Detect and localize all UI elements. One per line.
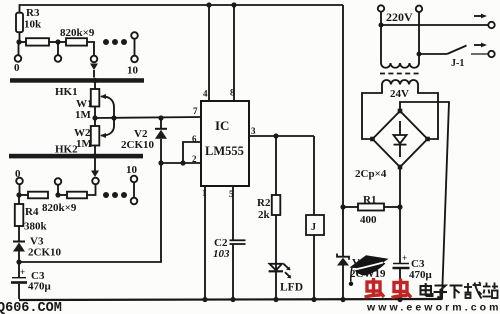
- watermark Q606.COM: [0, 301, 62, 314]
- arrow switch out: [474, 43, 487, 48]
- label LFD: [280, 282, 303, 294]
- svg-text:820k×9: 820k×9: [42, 202, 77, 214]
- pin 1 wire: [204, 186, 206, 299]
- pin 4 riser: [206, 2, 211, 101]
- dots ellipsis bottom: [103, 192, 127, 198]
- label 220V: [386, 10, 413, 24]
- node on HK1: [92, 78, 97, 83]
- svg-text:380k: 380k: [24, 221, 48, 233]
- svg-text:0: 0: [14, 62, 20, 74]
- label V2 2CK10: [121, 128, 155, 151]
- svg-text:R2: R2: [257, 197, 271, 209]
- bridge rectifier diamond 2Cp x4: [373, 111, 428, 167]
- label pin 5: [229, 189, 234, 199]
- resistor R3: [16, 13, 23, 42]
- label 820k x9 bottom: [42, 202, 77, 214]
- terminal 10 bottom pair: [131, 176, 138, 205]
- svg-text:7: 7: [193, 106, 198, 116]
- label HK1: [55, 86, 78, 98]
- terminal 220V right: [416, 6, 422, 12]
- wire V+ right vertical: [342, 5, 344, 207]
- svg-text:1M: 1M: [75, 109, 92, 121]
- capacitor C2: [230, 240, 246, 299]
- op-amp IC LM555 box: [201, 101, 249, 186]
- wire bridge right to secondary: [418, 85, 438, 140]
- resistor R1: [343, 204, 400, 211]
- resistor R4: [15, 195, 23, 241]
- label 0 bottom: [15, 168, 21, 180]
- watermark url: [366, 302, 500, 314]
- watermark char zhan: [483, 283, 499, 299]
- svg-text:2Cp×4: 2Cp×4: [355, 168, 387, 180]
- node V2 top: [158, 115, 163, 120]
- node wiper junction: [92, 115, 116, 120]
- label 0 top: [14, 62, 20, 74]
- node V3 bottom: [16, 259, 21, 264]
- svg-text:2k: 2k: [258, 209, 271, 221]
- resistor R2: [272, 136, 281, 264]
- label R3 10k: [24, 7, 42, 31]
- zener V4: [337, 207, 349, 299]
- wire W2 bottom: [94, 146, 96, 154]
- svg-text:6: 6: [192, 134, 197, 144]
- svg-text:HK1: HK1: [55, 86, 78, 98]
- svg-text:J-1: J-1: [451, 58, 464, 69]
- svg-text:4: 4: [203, 89, 208, 99]
- diode V2: [155, 118, 167, 163]
- svg-text:1: 1: [202, 188, 207, 198]
- resistor chain box 2 (820k): [58, 38, 87, 45]
- label pin 7: [193, 106, 198, 116]
- label V4 2CW19: [350, 257, 386, 280]
- bridge vertex nodes: [370, 109, 430, 170]
- pin 6 bracket: [183, 142, 201, 163]
- svg-text:24V: 24V: [390, 88, 409, 100]
- watermark char zai: [464, 282, 482, 299]
- svg-text:8: 8: [230, 88, 235, 98]
- label C2 103: [213, 237, 230, 260]
- wire bottom rail: [19, 299, 443, 300]
- label V3 2CK10: [28, 236, 62, 259]
- pin 5 wire: [232, 186, 234, 240]
- node junction R3 bottom: [16, 39, 21, 44]
- label pin 8: [230, 88, 235, 98]
- resistor chain box 2 bottom (820k): [58, 192, 87, 199]
- label pin 4: [203, 89, 208, 99]
- svg-text:10k: 10k: [24, 19, 42, 31]
- svg-text:LFD: LFD: [280, 282, 303, 294]
- label pin 2: [192, 154, 197, 164]
- pin 3 wire: [249, 135, 314, 137]
- terminal 10 top pair: [131, 32, 138, 62]
- watermark cap tassel: [349, 268, 353, 286]
- terminal mid top: [55, 42, 62, 62]
- wire bridge left to secondary: [362, 85, 382, 140]
- node mains left: [379, 23, 384, 28]
- node pin2/6 junctions: [158, 160, 185, 165]
- wire chain right bend to terminal: [87, 42, 94, 56]
- svg-text:820k×9: 820k×9: [60, 27, 95, 39]
- label J: [311, 222, 316, 233]
- svg-text:470μ: 470μ: [28, 281, 52, 293]
- svg-text:R1: R1: [363, 194, 376, 206]
- resistor chain box 1 (820k): [26, 38, 58, 45]
- wire primary right: [418, 12, 420, 63]
- label + C3 470u: [20, 267, 52, 293]
- label R2 2k: [257, 197, 271, 221]
- watermark char dian: [421, 283, 433, 296]
- svg-text:2CK10: 2CK10: [28, 247, 62, 259]
- transformer primary: [381, 63, 419, 68]
- wire pin3 to relay J: [313, 136, 315, 215]
- label R4 380k: [24, 206, 48, 233]
- svg-text:220V: 220V: [386, 10, 413, 24]
- label + C3 470u right: [402, 253, 433, 281]
- potentiometer W1: [91, 83, 100, 107]
- svg-text:+: +: [20, 267, 25, 277]
- wire J bottom: [313, 235, 315, 299]
- svg-text:3: 3: [251, 126, 256, 136]
- label W1 1M: [75, 98, 93, 121]
- pin 8 riser: [231, 2, 236, 101]
- nodes bottom rail: [202, 297, 402, 302]
- node C3 right top: [397, 204, 402, 209]
- wire chain top: [19, 41, 26, 43]
- label R1 400: [360, 194, 377, 226]
- svg-text:10: 10: [127, 65, 139, 77]
- potentiometer W2: [91, 126, 100, 146]
- label J-1: [451, 58, 464, 69]
- terminal arrow top: [90, 56, 98, 78]
- svg-text:10: 10: [126, 164, 138, 176]
- node mains right: [417, 52, 422, 57]
- node pin3 junction: [273, 133, 278, 138]
- node R4 top: [16, 192, 21, 197]
- svg-text:+: +: [402, 253, 407, 263]
- terminal 220V left: [378, 5, 384, 11]
- relay J box: [306, 215, 324, 235]
- wire bridge bottom to R1: [399, 167, 401, 207]
- capacitor C3 left: [11, 262, 27, 299]
- svg-text:2CK10: 2CK10: [121, 139, 155, 151]
- dots ellipsis top: [103, 39, 127, 45]
- svg-text:103: 103: [213, 248, 230, 260]
- watermark char xia: [450, 286, 463, 299]
- diode V3: [13, 242, 25, 263]
- wire top rail: [20, 5, 344, 13]
- switch J-1: [419, 46, 495, 58]
- label pin 1: [202, 188, 207, 198]
- LED LFD: [269, 264, 283, 299]
- LED arrows: [284, 264, 292, 279]
- svg-text:HK2: HK2: [55, 144, 78, 156]
- svg-text:400: 400: [360, 214, 377, 226]
- touch plate HK2: [9, 154, 143, 159]
- wire W1-W2: [94, 107, 96, 127]
- capacitor C3 right: [393, 207, 410, 299]
- wire primary left: [380, 12, 382, 64]
- node on HK2: [92, 153, 97, 158]
- svg-text:J: J: [311, 222, 316, 233]
- transformer secondary 24V: [382, 80, 418, 85]
- pin 2 wire: [161, 162, 201, 164]
- label 820k x9 top: [60, 27, 95, 39]
- label IC LM555: [205, 118, 244, 158]
- svg-text:0: 0: [15, 168, 21, 180]
- watermark chong char 2: [392, 279, 412, 298]
- terminal mid bottom: [55, 178, 62, 195]
- terminal 0 top: [15, 42, 22, 62]
- label HK2: [55, 144, 78, 156]
- watermark char zi: [434, 286, 448, 299]
- label 10 bottom: [126, 164, 138, 176]
- wire mains top out: [381, 22, 495, 28]
- svg-text:Q606.COM: Q606.COM: [0, 301, 62, 314]
- label 10 top: [127, 65, 139, 77]
- svg-text:www.eeworm.com: www.eeworm.com: [366, 302, 500, 314]
- label pin 6: [192, 134, 197, 144]
- arrow top out: [474, 14, 487, 19]
- wire V3 to pin2 riser: [19, 163, 161, 262]
- touch plate HK1: [10, 78, 144, 83]
- label 2Cp x4: [355, 168, 387, 180]
- svg-text:LM555: LM555: [205, 144, 244, 158]
- svg-text:5: 5: [229, 189, 234, 199]
- bridge inner diode: [394, 121, 407, 157]
- node chain mid bottom: [55, 192, 60, 197]
- watermark graduation-cap logo: [350, 255, 389, 275]
- svg-text:2: 2: [192, 154, 197, 164]
- label W2 1M: [74, 127, 93, 150]
- wiper W1: [100, 94, 114, 118]
- node chain mid: [55, 39, 60, 44]
- wire bridge top to right rail: [400, 102, 449, 299]
- resistor chain box 1 bottom (820k): [19, 192, 48, 199]
- svg-text:IC: IC: [215, 118, 229, 133]
- watermark chong char 1: [365, 278, 385, 297]
- wiper W2: [100, 119, 114, 138]
- node R1 left: [340, 204, 345, 209]
- label pin 3: [251, 126, 256, 136]
- svg-text:470μ: 470μ: [409, 269, 433, 281]
- svg-text:R3: R3: [26, 7, 40, 19]
- label 24V: [390, 88, 409, 100]
- terminal arrow bottom: [87, 158, 99, 195]
- svg-text:1M: 1M: [76, 138, 93, 150]
- terminal 0 bottom: [16, 178, 23, 195]
- wire to pin 7: [95, 117, 201, 118]
- transformer core: [380, 73, 419, 75]
- svg-text:R4: R4: [25, 206, 39, 218]
